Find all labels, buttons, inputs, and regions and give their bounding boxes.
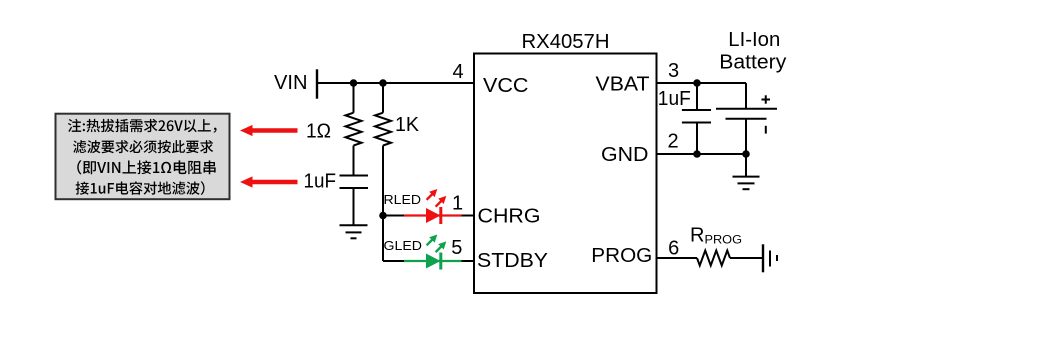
svg-text:GND: GND <box>601 144 649 166</box>
wire VIN to VCC <box>317 82 474 84</box>
wire top to R1 <box>353 83 355 113</box>
svg-text:STDBY: STDBY <box>477 250 548 272</box>
junction VBAT/C2 <box>693 79 701 87</box>
wire C2 to GND rail <box>696 123 698 155</box>
wire R1 to C1 <box>353 146 355 176</box>
svg-text:Battery: Battery <box>719 52 786 74</box>
battery plus sign <box>762 95 771 103</box>
battery minus tick <box>765 126 767 134</box>
svg-text:RX4057H: RX4057H <box>522 31 610 53</box>
junction R2/RLED <box>379 212 387 220</box>
wire RLED to CHRG pin <box>462 215 475 217</box>
wire VBAT junction to C2 <box>696 83 698 110</box>
LED RLED (red) <box>404 214 462 216</box>
wire VBAT pin 3 <box>657 82 747 84</box>
svg-text:PROG: PROG <box>591 245 652 267</box>
wire top to R2 <box>382 83 384 113</box>
VIN connector tick <box>316 69 318 98</box>
red arrow to 1 ohm resistor <box>240 125 298 136</box>
svg-text:GLED: GLED <box>384 238 423 253</box>
svg-text:1uF: 1uF <box>658 88 691 110</box>
resistor RPROG <box>697 251 730 266</box>
wire junction to RLED <box>383 215 404 217</box>
svg-text:VBAT: VBAT <box>596 74 650 96</box>
wire battery - to ground <box>745 119 747 177</box>
red arrow to 1uF capacitor <box>240 176 298 187</box>
svg-text:4: 4 <box>452 61 463 83</box>
note box (Chinese annotation) <box>56 114 230 200</box>
capacitor C2 1uF <box>682 109 711 111</box>
svg-text:CHRG: CHRG <box>478 205 541 227</box>
svg-text:6: 6 <box>668 237 679 259</box>
junction VIN/R2 <box>379 79 387 87</box>
svg-text:RLED: RLED <box>384 192 422 207</box>
ground (rotated, right of RPROG) <box>763 244 777 272</box>
wire R2 down to LEDs <box>382 146 384 262</box>
battery BT1 plates <box>716 108 777 110</box>
junction GND/battery <box>742 150 750 158</box>
wire C1 to ground <box>353 188 355 225</box>
svg-text:1uF: 1uF <box>304 170 337 192</box>
resistor R1 1Ohm <box>346 113 362 146</box>
wire RPROG to ground <box>730 257 763 259</box>
ground (below battery) <box>733 177 760 190</box>
junction VIN/R1 <box>350 79 358 87</box>
resistor R2 1K <box>375 113 391 146</box>
wire GND pin 2 <box>657 153 747 155</box>
ground (below C1) <box>340 225 368 238</box>
svg-text:VIN: VIN <box>274 72 308 94</box>
svg-text:VCC: VCC <box>483 75 529 97</box>
svg-text:1Ω: 1Ω <box>306 120 331 142</box>
svg-text:3: 3 <box>668 60 679 82</box>
svg-text:5: 5 <box>451 237 462 259</box>
LED GLED (green) <box>404 260 462 262</box>
wire PROG pin 6 <box>657 257 698 259</box>
svg-text:2: 2 <box>667 131 678 153</box>
junction GND/C2 <box>693 150 701 158</box>
svg-text:1K: 1K <box>395 114 420 136</box>
svg-text:LI-Ion: LI-Ion <box>728 29 780 51</box>
capacitor C1 1uF <box>340 175 369 177</box>
svg-text:PROG: PROG <box>705 235 743 247</box>
svg-text:R: R <box>690 225 704 247</box>
wire GLED to STDBY pin <box>462 260 475 262</box>
wire to battery + <box>745 83 747 109</box>
wire corner to GLED <box>383 260 404 262</box>
op IC U1 RX4057H body <box>474 54 657 294</box>
svg-text:1: 1 <box>452 192 463 214</box>
